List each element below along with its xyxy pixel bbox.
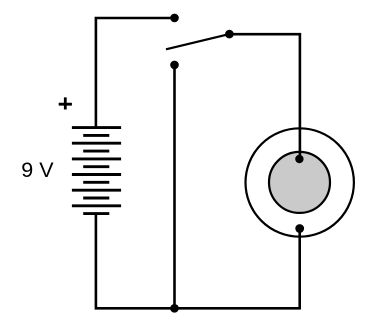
svg-text:9 V: 9 V bbox=[21, 158, 54, 182]
